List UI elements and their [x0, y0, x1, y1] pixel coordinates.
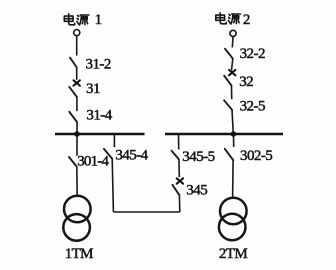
disconnector 301-4 blade — [69, 157, 77, 167]
wire 302-5 to 2TM — [232, 160, 235, 198]
disconnector 32-2 blade — [225, 49, 233, 59]
disconnector 32-5 blade — [224, 100, 232, 110]
breaker 345 cross — [177, 178, 183, 183]
wire 31 to 31-4 — [76, 97, 78, 111]
svg-text:1TM: 1TM — [65, 246, 93, 262]
right bus — [165, 133, 283, 135]
wire source1 to 31-2 — [76, 36, 78, 55]
svg-text:301-4: 301-4 — [77, 154, 109, 170]
wire source2 to 32-2 — [231, 37, 234, 47]
wire 32-5 to right bus — [232, 110, 233, 134]
svg-text:2TM: 2TM — [219, 246, 247, 262]
breaker 31 blade — [69, 87, 77, 97]
source 1 terminal circle — [74, 29, 80, 35]
wire 31-4 to left bus — [76, 122, 78, 134]
junction dot left bus — [74, 131, 80, 137]
wire 345-4 down to tie corner — [112, 158, 113, 212]
svg-text:31-4: 31-4 — [86, 108, 112, 124]
svg-text:32: 32 — [239, 74, 253, 90]
svg-text:32-5: 32-5 — [240, 99, 265, 115]
svg-text:345-4: 345-4 — [115, 148, 148, 164]
wire right bus to 302-5 — [233, 134, 235, 147]
wire 345-5 to right bus — [178, 134, 180, 150]
source 2 terminal circle — [230, 30, 236, 36]
transformer 2TM bottom circle — [219, 214, 246, 241]
wire tie corner up to breaker 345 — [178, 195, 180, 212]
disconnector 31-2 blade — [70, 58, 77, 68]
svg-text:32-2: 32-2 — [240, 46, 265, 62]
transformer 1TM bottom circle — [63, 214, 90, 241]
transformer 1TM top circle — [64, 196, 91, 223]
wire 32-2 to 32 — [232, 59, 233, 71]
wire 345 to 345-5 — [178, 159, 180, 177]
disconnector 345-4 blade — [104, 149, 112, 159]
disconnector 31-4 blade — [69, 112, 77, 122]
wire left bus to 345-4 — [113, 134, 115, 147]
breaker 32 cross — [229, 70, 235, 75]
breaker 345 blade — [172, 185, 179, 195]
left bus — [55, 133, 145, 135]
wire 301-4 to 1TM — [76, 167, 78, 196]
svg-text:345-5: 345-5 — [182, 149, 214, 165]
svg-text:2: 2 — [243, 12, 250, 28]
svg-text:302-5: 302-5 — [240, 148, 272, 164]
breaker 32 blade — [224, 76, 231, 86]
wire 32 to 32-5 — [231, 86, 233, 100]
label source2 电源 2 — [216, 12, 250, 28]
svg-text:1: 1 — [95, 12, 102, 28]
disconnector 345-5 blade — [172, 151, 179, 160]
wire 31-2 to 31 — [76, 67, 78, 79]
svg-text:345: 345 — [186, 182, 207, 198]
disconnector 302-5 blade — [225, 149, 234, 161]
junction dot right bus — [231, 131, 237, 137]
breaker 31 cross — [74, 80, 80, 85]
transformer 2TM top circle — [220, 198, 247, 225]
svg-text:31: 31 — [86, 81, 100, 97]
label source1 电源 1 — [64, 12, 101, 28]
svg-text:31-2: 31-2 — [86, 56, 111, 72]
wire left bus to 301-4 — [76, 134, 78, 156]
tie bottom wire — [113, 211, 179, 213]
